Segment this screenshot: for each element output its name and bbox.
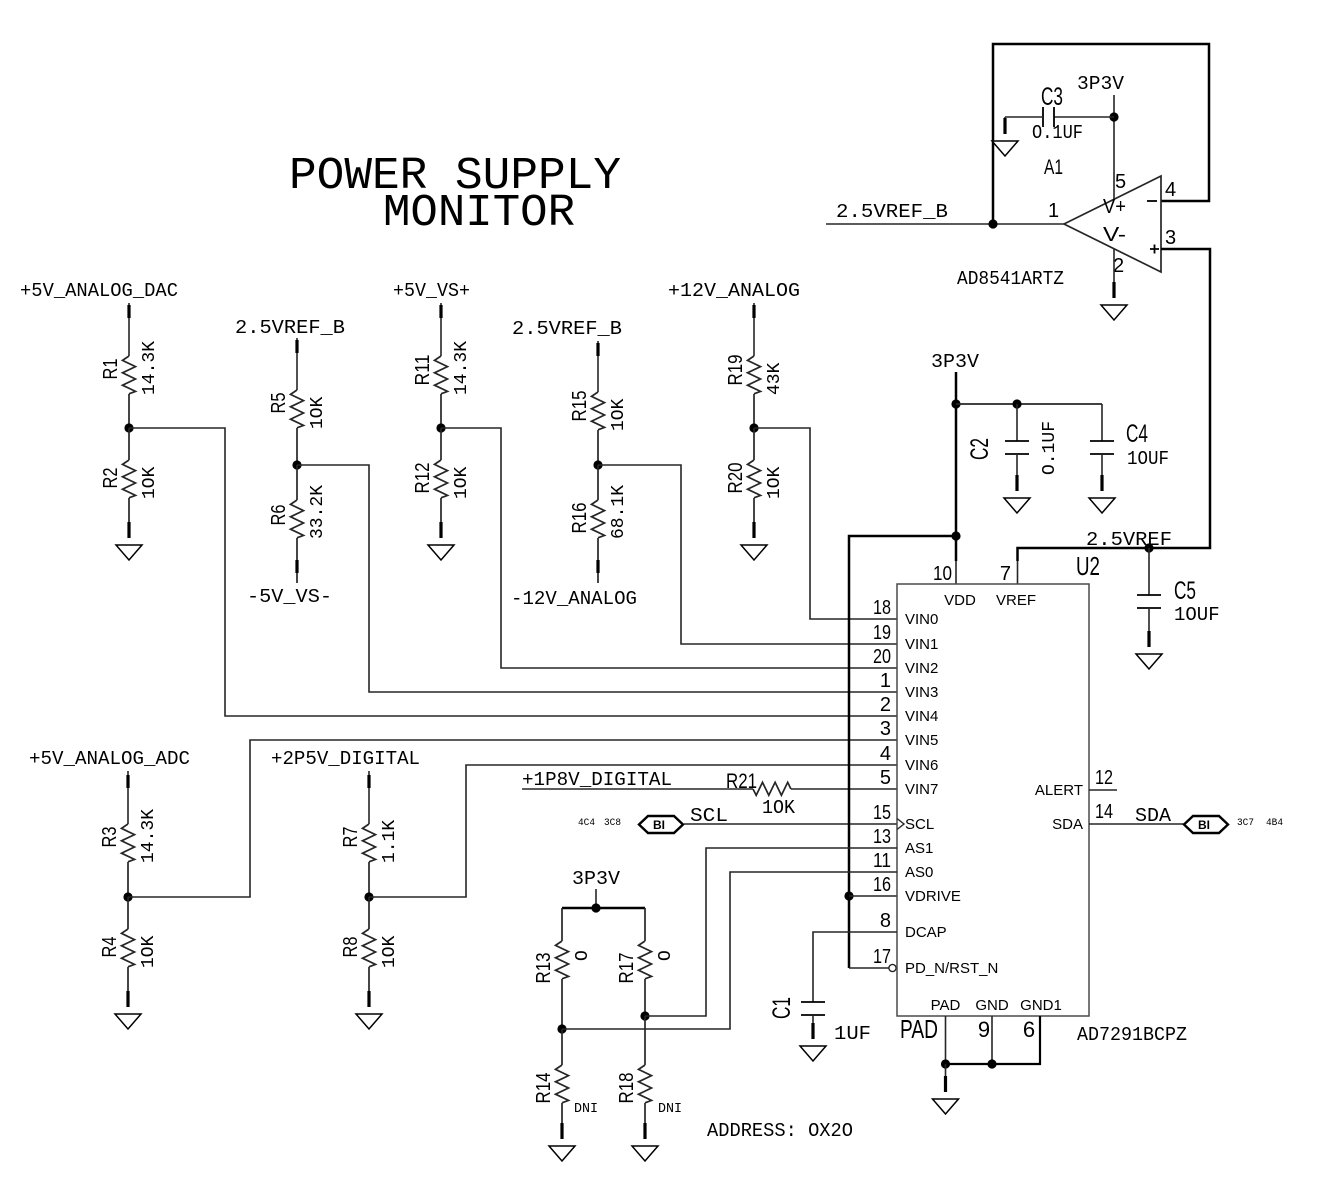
svg-text:16: 16: [873, 874, 891, 896]
svg-text:14.3K: 14.3K: [139, 809, 159, 863]
ground below R2: [116, 522, 142, 560]
svg-text:R17: R17: [616, 953, 638, 984]
pin end of R3 top: [126, 775, 129, 788]
ground below R14: [549, 1123, 575, 1161]
op-amp A1 triangle: [1064, 176, 1161, 272]
node PAD/GND junction: [941, 1059, 950, 1068]
svg-text:VIN2: VIN2: [905, 660, 938, 677]
node C2/C4 junction: [1012, 399, 1021, 408]
svg-text:R12: R12: [412, 463, 434, 494]
svg-text:2.5VREF_B: 2.5VREF_B: [235, 317, 345, 339]
node R5/R6 junction: [292, 460, 301, 469]
ground below R8: [356, 991, 382, 1029]
minus sign at A1 pin 4: [1147, 200, 1157, 202]
svg-text:C2: C2: [966, 438, 994, 460]
svg-text:R16: R16: [569, 503, 591, 534]
ground below PAD: [933, 1076, 959, 1114]
svg-text:SDA: SDA: [1052, 816, 1083, 833]
svg-text:ADDRESS: OX2O: ADDRESS: OX2O: [707, 1120, 853, 1142]
svg-text:VIN4: VIN4: [905, 708, 938, 725]
resistor R21 body: [753, 782, 791, 795]
svg-text:ALERT: ALERT: [1035, 782, 1083, 799]
node 3P3V bar junction: [591, 903, 600, 912]
svg-text:33.2K: 33.2K: [308, 485, 328, 539]
pin end of R15 top: [596, 343, 599, 356]
svg-text:14.3K: 14.3K: [452, 341, 472, 395]
resistor R4: [99, 897, 159, 991]
svg-text:+5V_ANALOG_ADC: +5V_ANALOG_ADC: [29, 748, 190, 770]
svg-text:PAD: PAD: [900, 1014, 938, 1044]
wire +5V_ANALOG_ADC to R3: [127, 771, 129, 824]
svg-text:+12V_ANALOG: +12V_ANALOG: [668, 280, 800, 302]
svg-text:R15: R15: [569, 391, 591, 422]
svg-text:R11: R11: [412, 355, 434, 386]
svg-text:R19: R19: [725, 355, 747, 386]
svg-text:9: 9: [978, 1017, 990, 1042]
node R3/R4 junction: [123, 892, 132, 901]
svg-text:3: 3: [1165, 227, 1176, 249]
svg-text:4: 4: [1165, 179, 1176, 201]
svg-text:12: 12: [1095, 767, 1113, 789]
svg-text:4: 4: [880, 743, 891, 765]
svg-text:3C8: 3C8: [604, 818, 621, 829]
svg-text:DNI: DNI: [658, 1101, 682, 1117]
inverter bubble at U2 pin 17: [889, 964, 896, 971]
resistor R18: [616, 1016, 652, 1123]
wire SCL to U2: [684, 823, 897, 825]
ground below C4: [1089, 475, 1115, 513]
node R17/R18 junction: [640, 1011, 649, 1020]
pin end of R6 bottom: [295, 560, 298, 573]
wire PAD to ground: [945, 1064, 947, 1076]
wire A1 feedback loop pin 4: [993, 44, 1209, 224]
wire R21 to U2 VIN7: [791, 788, 897, 790]
wire R1/R2 node to U2 VIN4: [129, 428, 897, 716]
wire 3P3V to C2/C4: [956, 403, 1102, 405]
pin end of R5 top: [295, 340, 298, 353]
ground below C5: [1136, 631, 1162, 669]
svg-text:R13: R13: [533, 953, 555, 984]
svg-text:R3: R3: [99, 827, 121, 848]
node A1 input/feedback junction: [988, 219, 997, 228]
resistor R17: [616, 908, 676, 1016]
svg-text:3P3V: 3P3V: [1077, 73, 1125, 95]
capacitor C4: [1090, 404, 1169, 475]
svg-text:V+: V+: [1103, 196, 1126, 218]
wire R3/R4 node to U2 VIN5: [128, 740, 897, 897]
wire A1 pin 3 output to 2.5VREF: [1018, 249, 1211, 561]
svg-text:BI: BI: [1198, 818, 1210, 832]
resistor R7: [340, 820, 400, 897]
svg-text:68.1K: 68.1K: [609, 485, 629, 539]
wire R13 node to U2 AS0: [562, 872, 897, 1029]
svg-text:GND1: GND1: [1020, 997, 1062, 1014]
plus sign at A1 pin 3: [1150, 245, 1159, 254]
svg-text:R7: R7: [340, 827, 362, 848]
svg-text:1OK: 1OK: [765, 466, 785, 499]
node VDRIVE junction: [844, 891, 853, 900]
wire +1P8V_DIGITAL to R21: [522, 788, 753, 790]
svg-text:1OUF: 1OUF: [1174, 604, 1220, 626]
resistor R20: [725, 428, 785, 522]
wire 3P3V rail to U2 VDD: [955, 372, 958, 561]
resistor R11: [412, 341, 472, 428]
svg-text:R14: R14: [533, 1073, 555, 1104]
svg-text:1OUF: 1OUF: [1127, 448, 1169, 470]
svg-text:C3: C3: [1041, 83, 1063, 111]
svg-text:GND: GND: [975, 997, 1009, 1014]
svg-text:8: 8: [880, 910, 891, 932]
svg-text:R18: R18: [616, 1073, 638, 1104]
pin end of R16 bottom: [596, 560, 599, 573]
svg-text:1: 1: [1048, 200, 1059, 222]
svg-text:VREF: VREF: [996, 592, 1036, 609]
node 3P3V / C2 branch: [951, 399, 960, 408]
resistor R2: [100, 428, 160, 522]
clock symbol at SCL pin: [897, 819, 904, 830]
svg-text:R5: R5: [268, 393, 290, 414]
capacitor C2: [966, 404, 1060, 475]
wire R11/R12 node to U2 VIN2: [441, 428, 897, 668]
svg-text:18: 18: [873, 597, 891, 619]
svg-text:1OK: 1OK: [762, 797, 796, 819]
svg-text:DCAP: DCAP: [905, 924, 947, 941]
svg-text:2.5VREF: 2.5VREF: [1086, 529, 1172, 551]
resistor R12: [412, 428, 472, 522]
resistor R5: [268, 390, 328, 465]
svg-text:5: 5: [1115, 171, 1126, 193]
pin end of R7 top: [367, 775, 370, 788]
svg-text:4B4: 4B4: [1266, 818, 1283, 829]
svg-text:R2: R2: [100, 468, 122, 489]
svg-text:O: O: [573, 950, 593, 961]
svg-text:VDRIVE: VDRIVE: [905, 888, 961, 905]
wire 2.5VREF_B to A1 pin 1: [826, 223, 1064, 225]
svg-text:1UF: 1UF: [834, 1023, 871, 1045]
resistor R16: [569, 465, 629, 583]
svg-text:13: 13: [873, 826, 891, 848]
resistor R15: [569, 391, 629, 466]
svg-text:VDD: VDD: [944, 592, 976, 609]
svg-text:R4: R4: [99, 937, 121, 958]
node 3P3V / VDRIVE branch: [951, 531, 960, 540]
svg-text:-12V_ANALOG: -12V_ANALOG: [511, 588, 637, 610]
wire GND1 stub: [946, 1016, 1041, 1064]
wire SDA to BI port: [1089, 823, 1184, 825]
ground below R12: [428, 522, 454, 560]
svg-text:O.1UF: O.1UF: [1032, 122, 1083, 144]
svg-text:2.5VREF_B: 2.5VREF_B: [512, 318, 622, 340]
svg-text:43K: 43K: [765, 362, 785, 395]
pin end of R1 top: [127, 305, 130, 318]
node 2.5VREF / C5 junction: [1144, 543, 1153, 552]
svg-text:VIN6: VIN6: [905, 757, 938, 774]
svg-text:VIN7: VIN7: [905, 781, 938, 798]
svg-text:VIN5: VIN5: [905, 732, 938, 749]
wire 3P3V to A1 pin 5: [1113, 95, 1115, 199]
svg-text:VIN1: VIN1: [905, 636, 938, 653]
svg-text:SDA: SDA: [1135, 805, 1172, 827]
svg-text:C1: C1: [768, 997, 796, 1019]
ground below R4: [115, 991, 141, 1029]
capacitor C5: [1137, 548, 1220, 631]
resistor R19: [725, 355, 785, 429]
resistor R6: [268, 465, 328, 583]
svg-text:1OK: 1OK: [452, 466, 472, 499]
svg-text:3P3V: 3P3V: [572, 868, 621, 890]
wire +2P5V_DIGITAL to R7: [368, 771, 370, 824]
pin end of R11 top: [439, 305, 442, 318]
resistor R13: [533, 908, 593, 1029]
svg-text:+5V_ANALOG_DAC: +5V_ANALOG_DAC: [20, 280, 178, 302]
wire VDRIVE to U2 pin 16: [849, 895, 897, 897]
wire R19/R20 node to U2 VIN0: [754, 428, 897, 619]
wire GND stub: [991, 1016, 993, 1064]
svg-text:PD_N/RST_N: PD_N/RST_N: [905, 960, 998, 977]
svg-text:VIN0: VIN0: [905, 611, 938, 628]
node R13/R14 junction: [557, 1024, 566, 1033]
svg-text:O: O: [656, 950, 676, 961]
svg-text:AD7291BCPZ: AD7291BCPZ: [1077, 1024, 1187, 1046]
svg-text:SCL: SCL: [905, 816, 934, 833]
svg-text:1OK: 1OK: [139, 935, 159, 968]
resistor R8: [340, 897, 400, 991]
ground A1 pin 2: [1101, 282, 1127, 320]
svg-text:R21: R21: [726, 770, 757, 793]
ground below C3: [992, 118, 1018, 156]
ground below R18: [632, 1123, 658, 1161]
svg-text:17: 17: [873, 946, 891, 968]
ground below C1: [800, 1023, 826, 1061]
svg-text:BI: BI: [653, 818, 665, 832]
svg-text:5: 5: [880, 767, 891, 789]
capacitor C3: [1005, 83, 1114, 144]
svg-text:1OK: 1OK: [308, 396, 328, 429]
svg-text:A1: A1: [1044, 156, 1063, 179]
wire 3P3V to VDRIVE/PD_N rail: [849, 536, 956, 968]
svg-text:10: 10: [933, 563, 952, 585]
svg-text:15: 15: [873, 802, 891, 824]
svg-text:1.1K: 1.1K: [380, 820, 400, 863]
svg-text:2: 2: [880, 694, 891, 716]
svg-text:3P3V: 3P3V: [931, 351, 980, 373]
svg-text:+2P5V_DIGITAL: +2P5V_DIGITAL: [271, 748, 420, 770]
resistor R1: [100, 341, 160, 428]
IC U2 body: [897, 584, 1089, 1016]
svg-text:+1P8V_DIGITAL: +1P8V_DIGITAL: [522, 769, 672, 791]
node R15/R16 junction: [593, 460, 602, 469]
svg-text:11: 11: [873, 850, 891, 872]
svg-text:14.3K: 14.3K: [140, 341, 160, 395]
wire VDD pin stub: [955, 561, 957, 584]
svg-text:PAD: PAD: [931, 997, 961, 1014]
wire 2.5VREF_B to R15: [597, 341, 599, 392]
svg-text:MONITOR: MONITOR: [383, 188, 575, 239]
node R11/R12 junction: [436, 423, 445, 432]
svg-text:-5V_VS-: -5V_VS-: [247, 586, 332, 608]
svg-text:O.1UF: O.1UF: [1040, 421, 1060, 475]
svg-text:6: 6: [1023, 1017, 1035, 1042]
svg-text:14: 14: [1095, 801, 1113, 823]
svg-text:R6: R6: [268, 505, 290, 526]
wire R7/R8 node to U2 VIN6: [369, 765, 897, 897]
svg-text:+5V_VS+: +5V_VS+: [393, 280, 470, 302]
wire +12V_ANALOG to R19: [753, 303, 755, 356]
pin end of R19 top: [752, 305, 755, 318]
wire +5V_VS+ to R11: [440, 303, 442, 356]
wire PD_N/RST_N to U2 pin 17: [849, 967, 889, 969]
svg-text:R8: R8: [340, 937, 362, 958]
svg-text:7: 7: [1000, 563, 1011, 585]
wire 3P3V to R13/R17 bar: [595, 889, 597, 908]
node R1/R2 junction: [124, 423, 133, 432]
svg-text:AS1: AS1: [905, 840, 933, 857]
svg-text:VIN3: VIN3: [905, 684, 938, 701]
wire R5/R6 node to U2 VIN3: [297, 465, 897, 692]
ground below C2: [1004, 475, 1030, 513]
svg-text:4C4: 4C4: [578, 818, 595, 829]
svg-text:R20: R20: [725, 463, 747, 494]
wire ALERT stub pin 12: [1089, 789, 1117, 791]
svg-text:19: 19: [873, 622, 891, 644]
svg-text:DNI: DNI: [574, 1101, 598, 1117]
svg-text:1OK: 1OK: [609, 398, 629, 431]
port BI (SDA): [1184, 816, 1228, 833]
svg-text:AD8541ARTZ: AD8541ARTZ: [957, 268, 1064, 290]
wire R15/R16 node to U2 VIN1: [598, 465, 897, 644]
wire PAD stub: [945, 1016, 947, 1064]
svg-text:V-: V-: [1103, 224, 1126, 246]
node R7/R8 junction: [364, 892, 373, 901]
node R19/R20 junction: [749, 423, 758, 432]
wire +5V_ANALOG_DAC to R1: [128, 303, 130, 356]
svg-text:1: 1: [880, 670, 891, 692]
svg-text:U2: U2: [1076, 551, 1100, 581]
svg-text:2.5VREF_B: 2.5VREF_B: [836, 201, 948, 223]
resistor R14: [533, 1029, 569, 1123]
svg-text:1OK: 1OK: [380, 935, 400, 968]
wire 2.5VREF_B to R5: [296, 338, 298, 390]
svg-text:1OK: 1OK: [140, 466, 160, 499]
svg-text:3: 3: [880, 718, 891, 740]
svg-text:3C7: 3C7: [1237, 818, 1254, 829]
ground below R20: [741, 522, 767, 560]
capacitor C1: [768, 997, 871, 1045]
svg-text:C5: C5: [1174, 577, 1196, 605]
svg-text:AS0: AS0: [905, 864, 933, 881]
resistor R3: [99, 809, 159, 897]
node GND/GND1 junction: [987, 1059, 996, 1068]
svg-text:20: 20: [873, 646, 891, 668]
svg-text:R1: R1: [100, 359, 122, 380]
port BI (SCL): [639, 816, 683, 833]
node C3/3P3V junction: [1109, 112, 1118, 121]
wire R17 node to U2 AS1: [645, 848, 897, 1016]
wire R13/R17 top bar: [562, 907, 645, 910]
svg-text:C4: C4: [1126, 420, 1148, 448]
wire DCAP to C1: [813, 932, 897, 1002]
wire A1 pin 2 to ground: [1113, 249, 1115, 282]
wire VREF pin stub: [1017, 561, 1019, 584]
